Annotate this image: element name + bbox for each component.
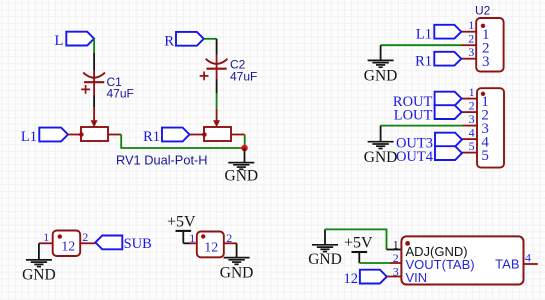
regulator pin 2 stub [390, 262, 401, 264]
svg-text:2: 2 [82, 230, 88, 244]
regulator U3 body [401, 236, 523, 284]
jumper W1 (2-pin) body [53, 231, 80, 257]
svg-text:1: 1 [393, 238, 399, 252]
potentiometer RV1 section A body [81, 127, 108, 141]
port R [164, 32, 203, 50]
U2 pin 3 stub [461, 58, 476, 60]
J1 pin 5 stub [462, 152, 477, 154]
W2 pin-1 marker dot [201, 234, 205, 238]
svg-text:4: 4 [525, 251, 531, 265]
svg-text:2: 2 [393, 251, 399, 265]
J1 pin 4 stub [462, 138, 477, 140]
svg-text:R: R [164, 33, 174, 49]
svg-text:47uF: 47uF [230, 69, 257, 83]
port R1 (to U2 pin 3) [415, 52, 461, 70]
potentiometer RV1 section B body [204, 127, 231, 141]
svg-text:47uF: 47uF [107, 87, 134, 101]
power +5V (regulator VOUT) [344, 235, 373, 263]
ground GND4 (W1 pin 1) [22, 243, 56, 283]
RV1.B pin 1 stub [190, 134, 205, 136]
svg-text:1: 1 [43, 230, 49, 244]
port LOUT (to J1 pin 2) [394, 105, 462, 123]
ground GND2 (U2 pin 2) [364, 45, 398, 84]
svg-text:U2: U2 [475, 4, 491, 18]
ground GND6 (regulator ADJ) [308, 229, 342, 267]
connector J1 (5-pin) body [477, 88, 504, 167]
port ROUT (to J1 pin 1) [393, 92, 462, 110]
J1 pin 3 stub [463, 125, 477, 127]
svg-text:4: 4 [469, 126, 475, 140]
svg-text:GND: GND [364, 68, 398, 85]
svg-text:VIN: VIN [406, 270, 428, 285]
svg-text:L1: L1 [416, 27, 432, 43]
svg-text:1: 1 [468, 18, 474, 32]
svg-text:+5V: +5V [344, 235, 373, 252]
wire R to C2 [204, 38, 217, 40]
port R1 (left) [143, 128, 189, 145]
power +5V (W2) [167, 214, 196, 244]
wire +5V to regulator pin 2 [359, 262, 390, 264]
wire C2 to RV1 wiper B [216, 93, 218, 109]
svg-text:TAB: TAB [495, 257, 519, 272]
svg-text:3: 3 [469, 112, 475, 126]
J1 pin 2 stub [462, 111, 477, 113]
svg-text:L: L [54, 33, 63, 49]
wire L to C1 [93, 39, 95, 53]
U2 pin 1 stub [461, 31, 476, 33]
RV1.A pin 3 stub [108, 134, 121, 136]
svg-text:3: 3 [468, 45, 474, 59]
W1 pin 2 stub [80, 242, 95, 244]
RV1.B pin dot [202, 132, 207, 137]
ground GND5 (W2 pin 2) [220, 243, 254, 281]
port OUT4 (to J1 pin 5) [396, 146, 462, 165]
svg-text:12: 12 [61, 240, 75, 255]
svg-text:OUT4: OUT4 [396, 149, 434, 165]
svg-text:GND: GND [364, 149, 398, 166]
U2 pin-1 marker dot [481, 24, 485, 28]
svg-text:3: 3 [393, 265, 399, 279]
svg-text:1: 1 [189, 231, 195, 245]
svg-text:L1: L1 [21, 129, 37, 145]
capacitor C1 [81, 53, 105, 107]
port OUT3 (to J1 pin 4) [396, 133, 462, 152]
svg-text:R1: R1 [143, 129, 160, 145]
port SUB [95, 236, 151, 252]
potentiometer RV1 section A (wiper pin) [91, 107, 98, 127]
RV1.A pin dot [79, 132, 84, 137]
svg-text:3: 3 [482, 54, 490, 70]
port 12 (to regulator VIN) [344, 270, 387, 287]
svg-text:SUB: SUB [124, 236, 152, 252]
svg-text:12: 12 [344, 271, 359, 287]
svg-text:5: 5 [481, 148, 489, 164]
wire GND to U2 pin 2 [381, 44, 461, 46]
U2 pin 2 stub [461, 44, 476, 46]
connector U2 body [476, 18, 503, 72]
svg-text:GND: GND [22, 267, 56, 284]
svg-text:1: 1 [469, 85, 475, 99]
svg-text:2: 2 [468, 32, 474, 46]
port L [54, 32, 94, 50]
svg-text:12: 12 [204, 241, 218, 256]
svg-text:GND: GND [308, 251, 342, 268]
wire RV1.B right pin down [244, 135, 246, 149]
regulator pin 4 stub [524, 263, 538, 265]
svg-text:RV1 Dual-Pot-H: RV1 Dual-Pot-H [116, 152, 208, 167]
RV1.A pin 1 stub [68, 134, 81, 136]
wire +5V to W2 pin 1 [183, 242, 190, 244]
svg-text:5: 5 [469, 139, 475, 153]
W2 pin 1 stub [190, 242, 197, 244]
RV1.B pin 3 stub [231, 134, 245, 136]
capacitor C2 [200, 39, 228, 93]
ground GND3 (J1 pin 3) [364, 126, 398, 166]
junction dot [241, 145, 248, 152]
svg-text:2: 2 [226, 231, 232, 245]
jumper W2 (2-pin) body [197, 232, 224, 258]
J1 pin 1 stub [462, 98, 477, 100]
svg-text:2: 2 [469, 99, 475, 113]
wire GND to J1 pin 3 [381, 125, 463, 127]
wire RV1.A to ground rail [121, 135, 244, 149]
regulator pin-1 marker dot [405, 241, 410, 246]
W1 pin 1 stub [39, 242, 53, 244]
svg-text:LOUT: LOUT [394, 107, 433, 123]
svg-text:GND: GND [225, 168, 259, 185]
W1 pin-1 marker dot [58, 234, 62, 238]
svg-text:+5V: +5V [167, 214, 196, 231]
port L1 (to U2 pin 1) [416, 25, 461, 43]
svg-text:GND: GND [220, 264, 254, 281]
potentiometer RV1 section B (wiper pin) [213, 109, 220, 127]
W2 pin 2 stub [224, 242, 237, 244]
port L1 (left) [21, 128, 68, 145]
wire GND6 to regulator pin 1 [325, 229, 387, 249]
J1 pin-1 marker dot [481, 92, 485, 96]
ground GND1 (pots) [225, 148, 259, 185]
svg-text:R1: R1 [415, 54, 432, 70]
regulator pin 1 stub (black) [387, 249, 402, 251]
regulator pin 3 stub [387, 276, 402, 278]
